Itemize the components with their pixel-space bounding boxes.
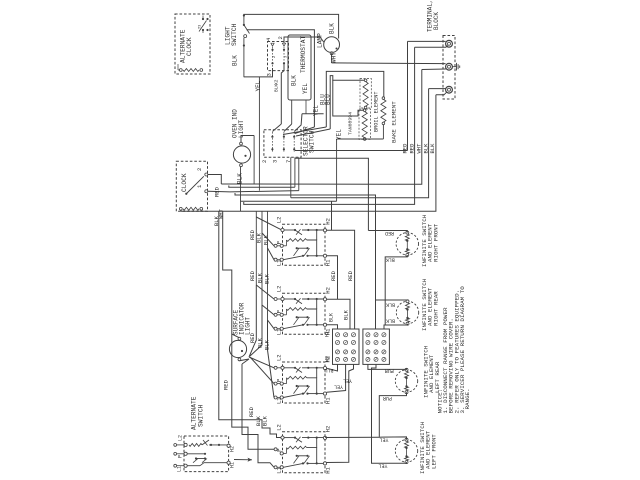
svg-text:CLOCK: CLOCK: [186, 37, 193, 56]
svg-text:BLOCK: BLOCK: [433, 12, 440, 30]
svg-text:LEFT REAR: LEFT REAR: [434, 361, 441, 393]
svg-text:H1: H1: [325, 259, 332, 266]
svg-text:RED: RED: [385, 230, 394, 236]
svg-text:BLK: BLK: [261, 415, 268, 426]
svg-text:BLU: BLU: [324, 367, 333, 373]
svg-text:P: P: [276, 310, 283, 313]
svg-text:4: 4: [265, 37, 272, 41]
svg-text:BLK: BLK: [342, 309, 349, 320]
svg-text:BLK: BLK: [237, 173, 244, 184]
svg-text:RIGHT REAR: RIGHT REAR: [432, 291, 439, 326]
svg-text:L2: L2: [276, 217, 283, 224]
svg-text:RED: RED: [409, 143, 416, 154]
svg-text:3: 3: [285, 56, 289, 58]
svg-text:3: 3: [266, 73, 273, 76]
svg-text:2: 2: [261, 160, 268, 163]
svg-text:H1: H1: [325, 397, 332, 404]
svg-text:SWITCH: SWITCH: [309, 130, 316, 153]
svg-text:RED: RED: [223, 379, 230, 390]
svg-text:YEL: YEL: [343, 378, 352, 384]
svg-text:YEL: YEL: [255, 80, 262, 91]
svg-text:YEL: YEL: [378, 463, 387, 469]
svg-text:BLK: BLK: [386, 256, 395, 262]
svg-text:BLK: BLK: [329, 313, 335, 322]
svg-text:H1: H1: [325, 466, 332, 473]
svg-text:H2: H2: [325, 287, 332, 294]
svg-text:BLK: BLK: [263, 273, 270, 284]
svg-text:YEL: YEL: [379, 436, 388, 442]
svg-text:P: P: [276, 379, 283, 382]
svg-text:BLK: BLK: [386, 301, 395, 307]
svg-text:2: 2: [277, 36, 284, 39]
svg-text:BLK: BLK: [329, 23, 336, 34]
svg-text:LEFT FRONT: LEFT FRONT: [430, 434, 437, 469]
svg-text:SWITCH: SWITCH: [197, 404, 204, 427]
svg-text:BLU: BLU: [325, 94, 332, 105]
svg-text:1: 1: [196, 184, 203, 188]
svg-text:H2: H2: [325, 426, 332, 433]
svg-text:TAN08994: TAN08994: [348, 112, 354, 135]
svg-text:P: P: [276, 241, 283, 244]
svg-text:LIGHT: LIGHT: [244, 317, 251, 335]
svg-text:H1: H1: [230, 462, 236, 468]
svg-text:T3: T3: [199, 25, 203, 29]
svg-text:RANGE.: RANGE.: [464, 388, 471, 409]
svg-text:YEL: YEL: [336, 129, 343, 140]
svg-text:RED: RED: [248, 406, 255, 417]
svg-text:L1: L1: [177, 466, 183, 472]
svg-text:L2: L2: [276, 286, 283, 293]
svg-text:RED: RED: [249, 270, 256, 281]
svg-text:PUR: PUR: [385, 368, 394, 374]
svg-text:YEL: YEL: [313, 105, 320, 116]
svg-text:BROIL ELEMENT: BROIL ELEMENT: [374, 92, 380, 132]
svg-text:BLK: BLK: [429, 143, 436, 154]
svg-text:H2: H2: [230, 446, 236, 452]
svg-text:WHT: WHT: [416, 143, 423, 154]
svg-text:SWITCH: SWITCH: [231, 23, 238, 46]
svg-text:BLK: BLK: [262, 234, 269, 245]
svg-text:BLK: BLK: [263, 339, 270, 350]
svg-text:RIGHT FRONT: RIGHT FRONT: [432, 223, 439, 262]
svg-text:BLK: BLK: [386, 318, 395, 324]
svg-text:BLK: BLK: [291, 75, 298, 86]
svg-text:L2: L2: [276, 424, 283, 431]
svg-text:WHT: WHT: [331, 52, 338, 63]
svg-text:H2: H2: [325, 356, 331, 362]
svg-text:BLK: BLK: [274, 84, 280, 92]
svg-text:H1: H1: [325, 331, 331, 337]
svg-text:L2: L2: [276, 354, 283, 361]
svg-text:BAKE ELEMENT: BAKE ELEMENT: [391, 101, 398, 143]
svg-text:L2: L2: [178, 435, 184, 441]
svg-text:YEL: YEL: [302, 83, 309, 94]
svg-text:YEL: YEL: [334, 384, 343, 390]
svg-text:RED: RED: [347, 270, 354, 281]
svg-text:2: 2: [273, 56, 277, 58]
svg-text:RED: RED: [214, 186, 221, 197]
svg-text:H2: H2: [325, 218, 332, 225]
svg-text:P: P: [178, 455, 184, 458]
svg-text:3: 3: [272, 160, 279, 163]
svg-text:RED: RED: [330, 270, 337, 281]
svg-text:2: 2: [196, 168, 203, 171]
svg-text:RED: RED: [402, 143, 409, 154]
svg-text:CLOCK: CLOCK: [181, 173, 188, 192]
svg-text:BLK: BLK: [232, 55, 239, 66]
svg-text:THERMOSTAT: THERMOSTAT: [300, 36, 307, 73]
svg-text:PUR: PUR: [383, 395, 392, 401]
